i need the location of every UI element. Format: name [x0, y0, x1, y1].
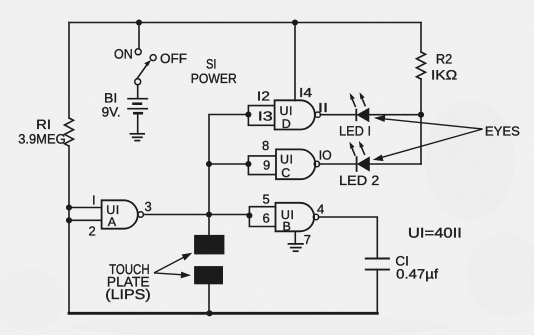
svg-text:LED 2: LED 2 [339, 173, 379, 188]
U1B input staple pins 5 6 [249, 207, 275, 227]
svg-text:2: 2 [89, 223, 96, 238]
svg-text:B: B [283, 220, 291, 234]
svg-text:IO: IO [319, 148, 332, 163]
wire U1B pin7 to ground [294, 231, 296, 244]
wire switch pivot to battery [137, 85, 139, 99]
svg-text:II: II [318, 100, 328, 115]
wire U1C output to LED2 [319, 163, 357, 165]
wire U1A pin1 lead [69, 207, 102, 209]
wire bottom rail [69, 312, 377, 315]
svg-text:UI: UI [280, 152, 294, 166]
junction dot U1D staple [245, 111, 251, 117]
junction dot top rail at switch [136, 19, 142, 25]
wire left rail upper segment [68, 23, 70, 119]
svg-text:6: 6 [263, 210, 270, 225]
svg-text:7: 7 [304, 232, 311, 247]
svg-text:8: 8 [262, 138, 269, 153]
wire U1B output to C1 [319, 217, 378, 258]
svg-text:EYES: EYES [485, 123, 520, 138]
svg-text:(LIPS): (LIPS) [105, 286, 150, 302]
NAND gate U1D [275, 100, 315, 129]
ground at U1B pin 7 [288, 244, 304, 251]
wire right rail lower segment [420, 79, 422, 164]
ground below battery [130, 134, 145, 141]
svg-text:BI: BI [104, 90, 117, 105]
junction dot left rail pin2 [66, 217, 72, 223]
U1A output bubble pin 3 [138, 212, 143, 217]
switch S1 arm with arrowhead [137, 60, 152, 79]
svg-text:UI: UI [280, 104, 294, 118]
junction dot bottom rail at touch plate branch [206, 310, 212, 316]
junction dot U1C staple [245, 161, 251, 167]
wire C1 to bottom rail [376, 270, 378, 314]
svg-text:5: 5 [263, 191, 270, 206]
svg-text:POWER: POWER [191, 71, 237, 86]
svg-text:LED I: LED I [339, 123, 371, 138]
wire top rail [69, 22, 421, 24]
svg-text:I2: I2 [257, 89, 270, 104]
LED2 triangle [357, 157, 369, 171]
svg-text:RI: RI [36, 117, 51, 132]
svg-text:UI=40II: UI=40II [408, 224, 462, 240]
svg-text:SI: SI [206, 57, 217, 72]
LED1 emission arrows [350, 92, 366, 107]
U1C output bubble pin 10 [314, 161, 319, 166]
LED2 emission arrows [349, 141, 364, 156]
junction dot left rail pin1 [66, 204, 72, 210]
touch plate pointer arrow upper [154, 253, 192, 273]
wire LED2 to right rail corner [370, 163, 422, 165]
touch plate pointer arrow lower [154, 272, 191, 279]
junction dot bus at pin3 line [206, 211, 212, 217]
svg-text:3: 3 [145, 199, 152, 214]
battery B1 [127, 99, 148, 114]
svg-text:IKΩ: IKΩ [431, 68, 457, 83]
svg-text:4: 4 [317, 202, 324, 217]
capacitor C1 [365, 259, 390, 270]
LED2 cathode bar [356, 156, 358, 172]
wire LED1 to right rail [369, 114, 421, 116]
resistor R1 [65, 118, 74, 146]
svg-text:R2: R2 [436, 52, 452, 67]
LED1 triangle [357, 108, 369, 122]
wire left rail lower segment [68, 146, 70, 313]
NAND gate U1B [276, 203, 315, 232]
switch S1 pivot circle [135, 79, 141, 85]
svg-text:A: A [108, 215, 117, 229]
wire switch drop from top rail [138, 23, 140, 49]
svg-text:I: I [92, 192, 96, 207]
junction dot U1B staple [246, 212, 252, 218]
U1D input staple pins 12 13 [248, 106, 274, 126]
wire U1D output to LED1 [320, 114, 356, 116]
svg-text:ON: ON [114, 47, 133, 62]
touch plate upper [194, 235, 224, 255]
svg-text:9: 9 [263, 157, 270, 172]
svg-text:OFF: OFF [160, 51, 187, 66]
wire U1C feed [209, 163, 248, 165]
junction dot bus at U1C feed [206, 161, 212, 167]
wire right rail upper segment [420, 23, 422, 53]
svg-text:3.9MEG: 3.9MEG [18, 131, 65, 146]
junction dot right rail at LED1 line [418, 112, 424, 118]
NAND gate U1C [276, 149, 315, 179]
resistor R2 [417, 52, 426, 79]
wire touch plate lower to bottom rail [208, 284, 210, 313]
svg-text:0.47µf: 0.47µf [396, 267, 438, 282]
wire middle bus vertical [209, 115, 248, 236]
switch S1 off-circle [150, 55, 156, 61]
wire battery to ground [137, 114, 139, 134]
svg-text:9V.: 9V. [102, 105, 121, 120]
junction dot top rail at pin14 [292, 19, 298, 25]
switch S1 on-circle [135, 49, 141, 55]
svg-text:I3: I3 [258, 109, 273, 124]
eyes pointer line to LED2 [373, 129, 483, 161]
LED1 cathode bar [355, 109, 357, 122]
NAND gate U1A [102, 200, 138, 228]
eyes pointer line to LED1 [374, 115, 483, 129]
wire U1A pin2 lead [69, 219, 102, 221]
touch plate lower [194, 266, 223, 284]
svg-text:C: C [281, 166, 290, 180]
U1D output bubble pin 11 [315, 112, 320, 117]
U1C input staple pins 8 9 [248, 156, 276, 175]
svg-text:D: D [282, 117, 291, 131]
wire pin14 drop from top rail to U1D [294, 23, 296, 101]
wire pin3 line U1A output to U1B staple [144, 214, 250, 216]
svg-text:I4: I4 [299, 85, 312, 100]
U1B output bubble pin 4 [313, 214, 318, 219]
